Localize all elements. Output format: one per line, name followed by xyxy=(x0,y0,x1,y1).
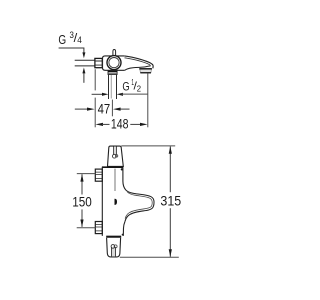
spout underside xyxy=(125,66,151,70)
faucet body (top drawing) xyxy=(103,56,125,70)
thermostat knob outer circle xyxy=(107,56,121,70)
315 dim line upper segment xyxy=(169,146,171,192)
knob inner circle xyxy=(109,58,119,68)
end piece slot xyxy=(112,247,116,256)
150 dim line upper segment xyxy=(81,174,83,194)
47 row: right arrowhead xyxy=(113,108,121,111)
47 row: right tail xyxy=(120,108,129,110)
top stem (lever end-on) xyxy=(108,146,124,166)
outlet collar below body xyxy=(108,71,117,75)
svg-text:315: 315 xyxy=(160,193,181,208)
315 bottom ext line xyxy=(120,256,179,258)
315 dim line lower segment xyxy=(169,208,171,257)
150 dim line lower segment xyxy=(81,209,83,227)
mousseur under spout tip xyxy=(139,69,152,73)
315 top ext line xyxy=(121,145,175,147)
pin on top of knob xyxy=(113,50,116,57)
150 arrow down xyxy=(80,220,83,228)
148 row: left arrowhead pointing left xyxy=(95,123,103,126)
end piece slot shading xyxy=(112,248,115,257)
148 row: right arrowhead pointing right xyxy=(140,123,148,126)
left datum extension line lower part xyxy=(94,98,96,128)
tail of up arrow xyxy=(83,73,85,83)
spout inner top line xyxy=(125,58,151,66)
spout top edge xyxy=(124,56,153,68)
label G 1/2 xyxy=(122,77,141,94)
arrow up from below pipe xyxy=(82,68,85,74)
hex nut on pipe xyxy=(95,58,102,67)
stem slot ball xyxy=(113,154,117,158)
315 arrow down xyxy=(169,249,172,257)
stem slot ball small xyxy=(115,155,117,157)
svg-text:2: 2 xyxy=(137,83,142,93)
stem slot xyxy=(114,147,117,155)
wing (spout seen from front) outer line xyxy=(125,190,154,222)
union nut 1 xyxy=(95,169,102,181)
G 1/2 row: right arrowhead xyxy=(117,93,123,96)
corner dot bottom right xyxy=(122,234,124,236)
ext line at outlet tube centre for 47 xyxy=(111,100,113,117)
label G 3/4 xyxy=(58,30,81,47)
G 1/2 row: left arrowhead xyxy=(102,93,108,96)
left datum extension line upper part xyxy=(94,69,96,90)
svg-text:150: 150 xyxy=(72,195,92,210)
svg-text:4: 4 xyxy=(77,35,82,45)
end piece (temperature handle end-on) xyxy=(107,238,121,257)
body interior line xyxy=(114,169,116,191)
tube inner highlight line xyxy=(110,75,112,99)
315 arrow up xyxy=(169,146,172,154)
body right edge lower xyxy=(123,222,125,236)
body top edge xyxy=(102,166,124,168)
148 row: left line xyxy=(102,123,110,125)
outlet tube down (G 1/2) xyxy=(109,75,117,100)
wing inner line xyxy=(125,192,152,219)
flow button (dark pill) xyxy=(115,199,118,205)
148 row: right line xyxy=(130,123,141,125)
G 1/2 row: left arrow tail xyxy=(92,93,103,95)
end piece ball pair xyxy=(111,245,115,249)
leader underline of G 3/4 with drop xyxy=(59,48,84,53)
body right edge upper xyxy=(123,168,126,190)
svg-text:G: G xyxy=(122,80,129,94)
corner tick top right xyxy=(121,168,123,170)
stem slot shading xyxy=(114,147,116,155)
G 1/2 underline line to leader xyxy=(122,93,148,95)
svg-text:47: 47 xyxy=(98,102,111,117)
body left edge xyxy=(101,167,103,236)
47 row: left tail xyxy=(75,108,87,110)
union nut 2 xyxy=(95,222,102,234)
svg-text:148: 148 xyxy=(111,117,129,132)
leader / right ext line from mousseur down xyxy=(147,73,149,127)
47 row: left arrowhead xyxy=(87,108,95,111)
body bottom dark band xyxy=(106,236,121,238)
connection pipe G3/4 xyxy=(75,60,95,66)
arrow down to pipe top xyxy=(82,52,85,58)
150 ext line bottom xyxy=(77,227,96,229)
150 arrow up xyxy=(80,174,83,182)
150 ext line top xyxy=(77,173,96,175)
svg-text:G: G xyxy=(58,32,66,47)
